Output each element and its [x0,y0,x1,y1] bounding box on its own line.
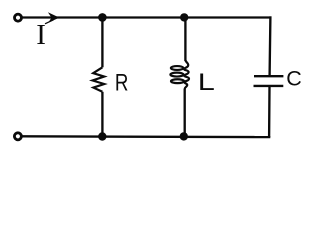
resistor R1 [93,67,105,92]
arrow current direction [48,12,60,22]
node junction top R [98,13,107,22]
terminal top-left [15,14,22,21]
wire R branch bottom [101,92,103,137]
capacitor C1 top plate [254,75,283,77]
svg-text:C: C [286,67,302,91]
node junction bottom R [98,132,106,140]
inductor L1 [170,60,189,89]
svg-text:R: R [115,69,129,96]
wire L branch bottom [184,89,186,137]
capacitor C1 bottom plate [254,85,284,87]
wire L branch top [184,18,186,62]
wire top horizontal [22,16,271,18]
wire R branch top [101,18,103,68]
node junction bottom L [180,132,188,140]
svg-text:L: L [198,68,215,95]
wire right branch [269,16,270,137]
wire bottom horizontal [22,135,270,138]
svg-text:I: I [36,19,46,51]
terminal bottom-left [14,133,21,140]
node junction top L [180,13,188,21]
